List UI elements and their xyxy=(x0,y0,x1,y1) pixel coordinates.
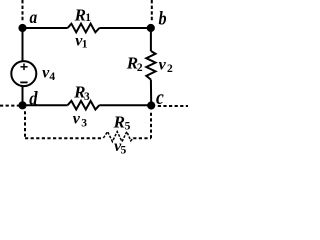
svg-text:4: 4 xyxy=(49,71,55,83)
svg-text:b: b xyxy=(159,7,167,29)
svg-text:2: 2 xyxy=(137,62,143,74)
wire R1 to b xyxy=(99,27,151,29)
svg-text:2: 2 xyxy=(167,63,173,75)
svg-text:3: 3 xyxy=(84,91,90,103)
svg-text:5: 5 xyxy=(125,120,131,132)
wire R2 to c xyxy=(150,80,152,106)
resistor R5 (dashed) xyxy=(103,132,133,142)
label R3 xyxy=(73,82,90,103)
svg-text:d: d xyxy=(29,87,38,108)
svg-text:1: 1 xyxy=(85,12,91,24)
dashed wire up to c xyxy=(150,111,152,138)
svg-text:v: v xyxy=(159,56,167,73)
voltage source V4 xyxy=(11,61,36,86)
resistor R2 xyxy=(146,51,155,80)
label v3 xyxy=(73,111,88,130)
dashed wire bottom left xyxy=(25,137,103,139)
label v2 xyxy=(159,56,173,75)
svg-text:5: 5 xyxy=(121,144,127,156)
dashed stub above node a xyxy=(22,0,24,21)
svg-text:R: R xyxy=(113,112,125,131)
wire d to R3 xyxy=(23,104,68,106)
svg-text:3: 3 xyxy=(81,117,87,129)
svg-text:a: a xyxy=(30,7,38,27)
label v1 xyxy=(75,33,87,51)
node c xyxy=(147,101,155,109)
svg-text:1: 1 xyxy=(82,39,88,51)
dashed stub above node b xyxy=(151,0,153,21)
node d xyxy=(18,101,26,109)
node b xyxy=(147,24,155,32)
resistor R3 xyxy=(68,101,100,110)
wire a to voltage source v4 xyxy=(22,28,24,61)
resistor R1 xyxy=(68,24,100,33)
svg-text:c: c xyxy=(156,87,164,109)
label R1 xyxy=(74,5,92,24)
svg-text:v: v xyxy=(73,111,81,128)
wire a to R1 xyxy=(23,27,68,29)
label R5 xyxy=(113,112,131,132)
label v5 xyxy=(114,138,126,156)
wire R3 to c xyxy=(99,104,151,106)
node a xyxy=(18,24,26,32)
svg-text:R: R xyxy=(74,5,86,24)
label R2 xyxy=(126,53,143,74)
wire v4 to d xyxy=(22,86,24,105)
wire b to R2 xyxy=(150,28,152,51)
dashed stub right of node c xyxy=(158,105,188,107)
dashed stub left of node d xyxy=(0,105,19,107)
dashed wire d down xyxy=(24,111,26,138)
label v4 xyxy=(42,64,55,82)
dashed wire bottom right xyxy=(133,137,151,139)
